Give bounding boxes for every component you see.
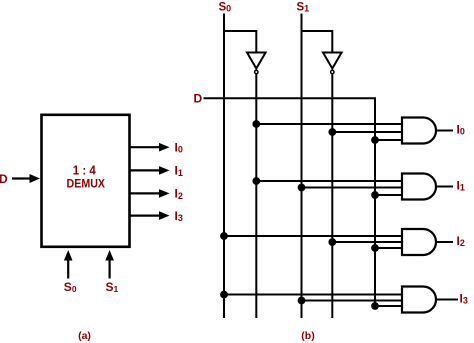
demux block 1:4 DEMUX — [42, 115, 130, 247]
wire I2 output — [436, 241, 453, 243]
wire S1 vertical — [301, 14, 303, 319]
wire D horizontal and vertical — [204, 98, 376, 306]
wire I3 output — [436, 299, 458, 301]
wire row1 S0' input — [256, 123, 402, 125]
wire row2 S1 input — [302, 187, 403, 189]
wire S0 vertical — [223, 14, 225, 319]
junction dot row3 S1' — [328, 238, 336, 246]
junction dot row1 S0' — [252, 120, 260, 128]
svg-text:D: D — [194, 91, 203, 105]
and gate U6 (output I3) — [402, 287, 436, 313]
wire I0 output — [436, 130, 453, 132]
svg-text:1 : 4: 1 : 4 — [73, 163, 96, 177]
select arrow S1 (block) — [105, 250, 114, 279]
junction dot row3 S0 — [220, 232, 228, 240]
junction dot row4 D — [371, 302, 379, 310]
wire row4 S1 input — [302, 300, 403, 302]
junction dot row2 D — [371, 191, 379, 199]
junction dot row4 S0 — [220, 291, 228, 299]
wire S1' vertical — [331, 74, 333, 318]
junction dot row3 D — [371, 244, 379, 252]
wire S0 branch to inverter — [224, 31, 256, 52]
wire I1 output — [436, 186, 453, 188]
output arrow I3 (block) — [130, 211, 170, 220]
wire row3 S0 input — [224, 235, 402, 237]
select arrow S0 (block) — [64, 250, 73, 279]
output arrow I0 (block) — [130, 143, 170, 152]
wire row1 D input — [375, 139, 402, 141]
wire row4 D input — [375, 305, 402, 307]
wire row3 D input — [375, 247, 402, 249]
junction dot row2 S0' — [252, 177, 260, 185]
wire row3 S1' input — [332, 241, 402, 243]
wire row4 S0 input — [224, 294, 402, 296]
svg-text:S1: S1 — [297, 1, 310, 13]
wire row1 S1' input — [332, 131, 402, 133]
svg-text:D: D — [0, 172, 8, 186]
wire row2 S0' input — [256, 180, 402, 182]
svg-text:(b): (b) — [301, 330, 314, 342]
inverter U2 (S1 complement) — [323, 53, 342, 74]
and gate U5 (output I2) — [402, 229, 436, 255]
junction dot row4 S1 — [298, 297, 306, 305]
and gate U3 (output I0) — [402, 118, 436, 144]
svg-text:(a): (a) — [78, 330, 91, 342]
wire S0' vertical — [255, 74, 257, 318]
junction dot row1 D — [371, 136, 379, 144]
output arrow I1 (block) — [130, 166, 170, 175]
wire S1 branch to inverter — [302, 31, 333, 52]
svg-text:S0: S0 — [219, 1, 232, 13]
and gate U4 (output I1) — [402, 174, 436, 200]
wire row2 D input — [375, 194, 402, 196]
junction dot row2 S1 — [298, 184, 306, 192]
inverter U1 (S0 complement) — [247, 53, 266, 74]
junction dot row1 S1' — [328, 128, 336, 136]
svg-text:DEMUX: DEMUX — [67, 177, 106, 191]
input arrow D — [12, 174, 40, 183]
output arrow I2 (block) — [130, 189, 170, 198]
